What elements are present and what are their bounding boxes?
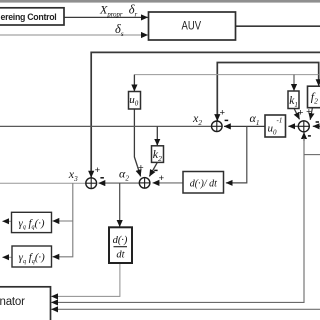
wire k1 output into sum B (294, 109, 299, 120)
wire branch into k2 (156, 126, 158, 145)
wire branch to right edge y=154.6 (304, 154, 320, 156)
block k1 (288, 91, 299, 109)
arrow into f2 top (318, 76, 320, 86)
svg-text:AUV: AUV (182, 18, 202, 32)
sign minus at x3 right (100, 177, 104, 179)
svg-text:+: + (306, 107, 312, 118)
block AUV (149, 12, 236, 40)
wire steering-to-AUV (X_propr, delta_r) (64, 16, 148, 18)
wire into k1 top (293, 75, 295, 91)
sign minus at a2 topright (154, 169, 157, 171)
wire gamma box2 output to left (2, 256, 12, 258)
block gamma_q f_q 1 (12, 212, 52, 232)
wire k2 output down to sum a2 (149, 162, 157, 176)
wire grey y=74.6 feeding u0 and k1 (134, 74, 318, 76)
wire right-edge input into sum B (313, 125, 320, 127)
svg-text:+: + (159, 173, 165, 184)
wire sum B output into u0inv (288, 125, 298, 127)
wire sum x3 output to left edge (0, 182, 86, 184)
sign minus bottom input B (308, 135, 311, 137)
wire branch alpha2 down into d()/dt fraction box (119, 183, 121, 227)
wire u0 output down to sum a2 (134, 109, 137, 167)
wire delta_s into AUV (0, 34, 148, 36)
svg-text:+: + (298, 107, 304, 118)
arrow into sum x2 top (216, 110, 218, 121)
wire sum a2 output to sum x3 (99, 182, 140, 184)
svg-text:+: + (95, 165, 101, 176)
svg-text:+: + (220, 107, 226, 118)
block d()/dt horizontal (183, 172, 224, 194)
wire y=62 from right, down to f2 and down to sum x2 (217, 63, 318, 117)
wire alpha1: u0inv output to sum x2 (224, 125, 265, 127)
svg-text:d(·): d(·) (113, 235, 128, 246)
wire long feedback y=52 from right edge (91, 52, 320, 173)
svg-text:nator: nator (0, 296, 25, 308)
block f2 (308, 86, 320, 108)
summing junction x2 (212, 121, 223, 132)
grey top border band (0, 0, 320, 3)
block Steering Control (0, 8, 64, 25)
wire branch alpha1 down to d/dt box (231, 126, 247, 182)
svg-text:dt: dt (116, 250, 125, 261)
wire branch down to gamma boxes (60, 183, 73, 257)
wire x2 line to left edge (0, 125, 212, 127)
arrow into sum x3 top (90, 168, 92, 178)
svg-text:d(·)/ dt: d(·)/ dt (190, 179, 217, 190)
block d()/dt fraction (109, 227, 132, 263)
wire bottom line from right edge into nator box (51, 308, 320, 310)
block gamma_q f_q 2 (12, 246, 52, 267)
sign minus right input B (316, 121, 319, 123)
svg-text:ereing Control: ereing Control (1, 12, 57, 22)
sign minus at x2 right (225, 119, 229, 121)
block nator (estimator, cut off) (0, 287, 51, 320)
wire fraction box output down-left into nator box (60, 263, 120, 296)
summing junction x3 (86, 178, 97, 189)
block u0^-1 (265, 115, 286, 137)
block k2 (152, 146, 164, 163)
summing junction a2 (139, 178, 150, 189)
wire bottom input into sum B with long vertical (303, 132, 305, 141)
wire d/dt output into sum a2 (153, 182, 183, 184)
block u0 (129, 92, 141, 110)
wire AUV output to right edge (236, 25, 320, 27)
wire branch into gamma box 1 (53, 220, 73, 222)
wire f2 output into sum B (310, 108, 312, 120)
svg-text:+: + (138, 163, 144, 174)
wire gamma box1 output to left (2, 220, 11, 222)
summing junction B (298, 121, 309, 132)
wire into u0 top (133, 75, 135, 92)
